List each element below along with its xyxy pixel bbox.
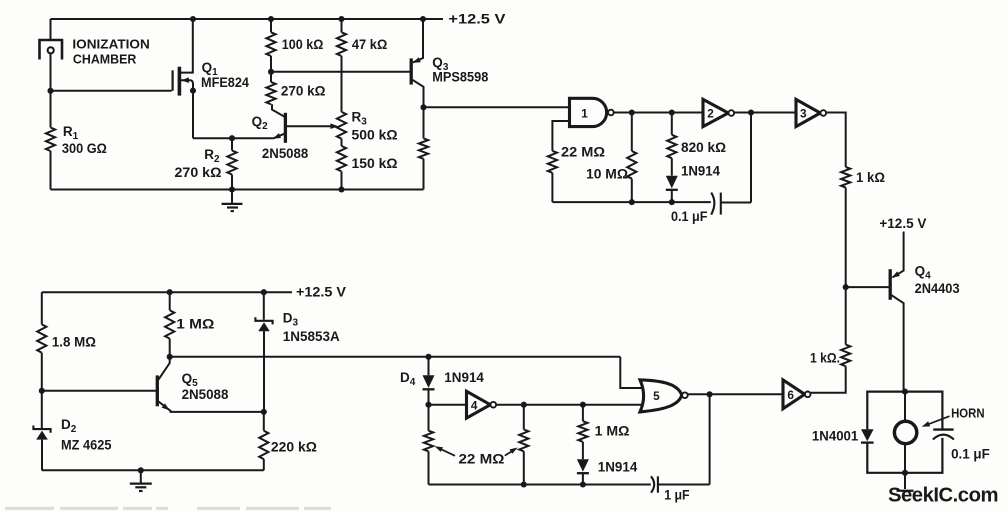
- svg-text:1N914: 1N914: [598, 459, 638, 475]
- diode D4 1N914: [428, 357, 430, 376]
- diode 1N914 timing: [666, 176, 678, 189]
- transistor Q2 2N5088 base bar: [284, 113, 287, 143]
- wire cap feedback up to inverter 2 output: [750, 113, 752, 203]
- transistor Q2 collector lead: [272, 104, 285, 117]
- svg-text:CHAMBER: CHAMBER: [73, 52, 136, 66]
- node Q3 collector junction: [420, 104, 426, 110]
- capacitor 0.1 uF timing: [711, 193, 714, 215]
- wire Q2 base to R3 wiper arrow: [287, 125, 335, 127]
- node top rail / 47k junction: [338, 16, 344, 22]
- svg-text:MPS8598: MPS8598: [432, 70, 488, 85]
- node ground rail / R2 junction: [229, 186, 235, 192]
- wire Q5 base: [42, 390, 156, 392]
- node diode bottom junction: [669, 199, 675, 205]
- node R2 top junction: [229, 135, 235, 141]
- resistor 10 Mohm: [631, 113, 633, 152]
- wire NAND gate 1 lower input feedback: [552, 121, 569, 151]
- svg-text:270 kΩ: 270 kΩ: [175, 164, 222, 180]
- resistor 1 Mohm middle: [582, 405, 584, 422]
- svg-text:+12.5 V: +12.5 V: [448, 11, 506, 27]
- node 100k/270k junction: [268, 69, 274, 75]
- node horn box top junction: [902, 389, 908, 395]
- nor gate U5: [640, 380, 682, 412]
- transistor Q4 2N4403 base bar: [889, 269, 892, 300]
- wire 100k-270k node to Q3 base: [271, 71, 410, 73]
- wire timing bottom rail: [552, 201, 710, 203]
- wire D4 node to inverter 4: [429, 404, 467, 406]
- caption sliver bottom: [5, 507, 54, 510]
- wire pot arrow left: [438, 448, 455, 456]
- inverter U6: [783, 380, 805, 409]
- resistor Q3 collector load to ground: [423, 107, 425, 138]
- resistor 1.8 Mohm: [41, 292, 43, 324]
- wire node to Q1 gate: [51, 90, 172, 92]
- resistor 1 kohm lower: [845, 287, 847, 345]
- svg-text:270 kΩ: 270 kΩ: [281, 82, 326, 98]
- svg-text:2: 2: [707, 106, 714, 120]
- transistor Q3 emitter lead with arrow: [413, 19, 423, 62]
- wire NAND output line: [614, 112, 703, 114]
- node NAND out / 820k junction: [669, 109, 675, 115]
- node ground rail junction: [138, 467, 144, 473]
- node Q4 base junction: [843, 284, 849, 290]
- transistor Q1 drain lead: [181, 19, 193, 73]
- svg-text:+12.5 V: +12.5 V: [296, 284, 347, 300]
- inverter U2: [703, 99, 728, 126]
- transistor Q5 emitter lead with arrow: [159, 402, 264, 412]
- wire inverter 3 output to 1k: [826, 113, 846, 168]
- resistor 150 kohm: [337, 146, 346, 171]
- wire top +12.5V rail: [51, 18, 444, 20]
- svg-text:0.1 μF: 0.1 μF: [671, 208, 708, 224]
- svg-text:+12.5 V: +12.5 V: [879, 215, 927, 231]
- transistor Q5 collector lead: [159, 357, 170, 380]
- svg-text:1N5853A: 1N5853A: [283, 329, 340, 344]
- horn circle: [894, 421, 916, 443]
- node top rail / Q1 drain junction: [190, 16, 196, 22]
- wire base node to Q4: [846, 286, 889, 288]
- svg-text:1.8 MΩ: 1.8 MΩ: [52, 334, 96, 350]
- potentiometer R3 500 kohm: [337, 112, 346, 139]
- svg-text:1: 1: [581, 106, 588, 120]
- diode D3 1N5853A zener: [263, 292, 265, 320]
- svg-text:4: 4: [471, 398, 478, 412]
- wire chamber down to gate node: [50, 53, 52, 90]
- wire NOR output to inverter 6: [688, 393, 783, 395]
- potentiometer 22 Mohm left: [428, 405, 430, 431]
- node inverter2 out / feedback junction: [748, 109, 754, 115]
- inverter U3: [796, 99, 820, 126]
- node lower rail / D3 junction: [261, 289, 267, 295]
- resistor 100 kohm: [270, 19, 272, 32]
- node top rail / Q3 emitter junction: [420, 16, 426, 22]
- ionization chamber center electrode: [48, 47, 54, 53]
- resistor 820 kohm: [671, 113, 673, 135]
- ground symbol top section: [231, 190, 233, 204]
- resistor 270 kohm upper: [266, 82, 275, 104]
- svg-text:150 kΩ: 150 kΩ: [352, 155, 398, 171]
- svg-text:220 kΩ: 220 kΩ: [271, 439, 317, 455]
- transistor Q5 2N5088 base bar: [156, 375, 159, 406]
- transistor Q3 MPS8598 base bar: [410, 58, 413, 84]
- transistor Q3 collector lead: [412, 80, 423, 108]
- svg-text:22 MΩ: 22 MΩ: [459, 450, 505, 466]
- transistor Q4 emitter arrow: [892, 271, 900, 277]
- svg-text:2N5088: 2N5088: [262, 146, 309, 161]
- resistor 47 kohm: [341, 19, 343, 32]
- node Q5 collector junction: [167, 354, 173, 360]
- node 1N914 bottom junction: [580, 481, 586, 487]
- svg-text:2N5088: 2N5088: [182, 387, 229, 402]
- resistor 1 Mohm left: [169, 292, 171, 310]
- wire Q5 collector line to NOR gate: [170, 356, 621, 358]
- node horn box bottom junction: [902, 470, 908, 476]
- capacitor 1 uF: [651, 476, 654, 492]
- svg-text:2N4403: 2N4403: [915, 281, 960, 296]
- node Q5 emitter / 220k junction: [261, 409, 267, 415]
- wire horn bottom stub: [904, 444, 906, 473]
- node 22M-2 bottom junction: [521, 481, 527, 487]
- wire bottom-left ground rail: [42, 469, 264, 471]
- svg-text:1 kΩ: 1 kΩ: [856, 169, 885, 185]
- node D4 top junction: [425, 354, 431, 360]
- node lower rail / 1M junction: [167, 289, 173, 295]
- wire bottom ground rail of top section: [51, 189, 424, 191]
- transistor Q1 channel bar: [178, 67, 182, 96]
- wire Q1 source to Q2 emitter node: [193, 137, 273, 139]
- resistor 1 kohm upper: [841, 167, 850, 188]
- wire down to NOR top input: [620, 357, 642, 388]
- wire rail to ionization chamber: [50, 19, 52, 39]
- transistor Q1 source lead with arrow: [181, 80, 194, 138]
- node 1M top junction: [580, 402, 586, 408]
- wire 1uF up to NOR output node: [709, 394, 711, 484]
- ground symbol bottom left: [140, 470, 142, 483]
- wire horn ground stub below box: [904, 473, 906, 489]
- node Q1 source corner: [190, 88, 196, 94]
- resistor 220 kohm: [263, 412, 265, 431]
- svg-text:47 kΩ: 47 kΩ: [352, 36, 387, 52]
- svg-text:5: 5: [653, 389, 660, 403]
- transistor Q4 collector lead: [892, 295, 904, 391]
- svg-text:IONIZATION: IONIZATION: [72, 37, 149, 51]
- resistor R2 270 kohm: [231, 138, 233, 150]
- svg-text:1 MΩ: 1 MΩ: [176, 315, 214, 331]
- node 10M bottom junction: [629, 199, 635, 205]
- wire inverter 2 to inverter 3: [734, 112, 796, 114]
- svg-text:1 kΩ.: 1 kΩ.: [810, 350, 840, 366]
- svg-text:1N914: 1N914: [444, 369, 484, 385]
- svg-text:6: 6: [787, 388, 794, 402]
- wire lower +12.5V rail: [42, 291, 292, 293]
- transistor Q1 MFE824 gate bar: [172, 70, 174, 91]
- svg-text:1 μF: 1 μF: [664, 487, 690, 503]
- svg-text:1N914: 1N914: [681, 163, 720, 179]
- node top rail / 100k junction: [268, 16, 274, 22]
- svg-text:500 kΩ: 500 kΩ: [352, 127, 398, 143]
- svg-text:HORN: HORN: [951, 406, 985, 420]
- wire HORN pointer arrow: [925, 416, 950, 425]
- capacitor 0.1 uF horn: [933, 428, 953, 430]
- wire inverter 4 output to NOR input: [496, 404, 642, 406]
- node chamber/gate/R1 junction: [47, 88, 53, 94]
- wire +12.5V to Q4 emitter: [893, 232, 904, 278]
- ionization chamber electrode bracket: [40, 40, 63, 60]
- diode 1N914 bottom: [577, 459, 589, 472]
- svg-text:3: 3: [800, 106, 807, 120]
- node NOR out / 1uF junction: [707, 391, 713, 397]
- horn enclosure box: [867, 392, 942, 473]
- nand gate U1: [570, 98, 607, 126]
- svg-text:0.1 μF: 0.1 μF: [951, 445, 990, 461]
- potentiometer 22 Mohm right: [523, 405, 525, 430]
- svg-text:1N4001: 1N4001: [812, 427, 859, 443]
- svg-text:MFE824: MFE824: [201, 75, 249, 90]
- node D4 bottom junction: [425, 402, 431, 408]
- wire bottom middle rail: [429, 484, 651, 486]
- diode 1N4001 flyback: [861, 429, 874, 441]
- node 22M-2 top junction: [521, 402, 527, 408]
- svg-text:22 MΩ: 22 MΩ: [561, 143, 605, 159]
- wire Q3 collector to NAND gate 1 input: [424, 106, 570, 108]
- svg-text:1 MΩ: 1 MΩ: [595, 423, 630, 439]
- node ground rail / 150k junction: [338, 186, 344, 192]
- node NAND out / 10M junction: [629, 109, 635, 115]
- svg-text:MZ 4625: MZ 4625: [61, 438, 112, 453]
- svg-text:100 kΩ: 100 kΩ: [282, 36, 324, 52]
- wire horn top stub: [904, 392, 906, 422]
- inverter U4: [467, 391, 491, 418]
- resistor 22 Mohm feedback: [548, 151, 557, 173]
- diode D2 MZ4625 zener: [41, 391, 43, 428]
- wire pot arrow right: [505, 450, 515, 456]
- node 1.8M / Q5 base junction: [39, 388, 45, 394]
- transistor Q2 emitter lead with arrow: [273, 134, 285, 139]
- svg-text:300 GΩ: 300 GΩ: [62, 140, 107, 156]
- resistor R1 300 Gohm: [50, 91, 52, 128]
- wire horn ground stub overlay: [904, 473, 906, 489]
- svg-text:820 kΩ: 820 kΩ: [681, 139, 726, 155]
- svg-text:10 MΩ: 10 MΩ: [586, 165, 628, 181]
